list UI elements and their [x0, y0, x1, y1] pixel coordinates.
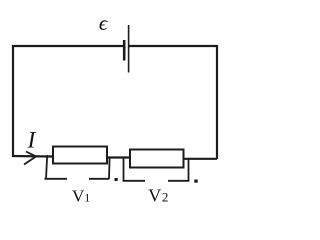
wire R2 to right corner: [184, 158, 218, 160]
battery cell short plate (negative): [123, 40, 126, 61]
wire top-left (battery to left corner): [13, 46, 124, 157]
wire top-right (battery to right corner): [129, 46, 218, 159]
svg-text:V2: V2: [148, 186, 168, 206]
resistor R1 body: [53, 147, 107, 164]
V2 bracket base left segment: [123, 180, 145, 182]
V1 bracket base right segment: [89, 178, 109, 180]
node dot after V2 bracket: [194, 180, 197, 183]
V1 bracket base left segment: [45, 178, 68, 180]
V1 bracket right tick: [108, 157, 111, 179]
svg-text:V1: V1: [72, 187, 90, 206]
node dot after V1 bracket: [115, 178, 118, 181]
V2 bracket base right segment: [168, 180, 189, 182]
V2 bracket right tick: [188, 159, 190, 181]
resistor R2 body: [130, 150, 184, 168]
current arrow head: [24, 152, 36, 165]
V2 bracket left tick: [123, 158, 125, 181]
battery cell long plate (positive): [128, 25, 130, 73]
wire bottom-left with current direction: [12, 155, 52, 158]
V1 bracket left tick: [46, 155, 47, 179]
svg-text:I: I: [27, 127, 37, 153]
svg-text:ϵ: ϵ: [99, 11, 109, 35]
wire between R1 and R2: [107, 156, 130, 158]
